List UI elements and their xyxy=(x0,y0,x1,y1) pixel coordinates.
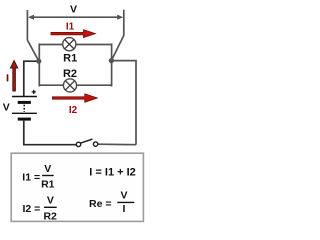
lamp R2 xyxy=(63,79,76,92)
wire: battery bottom lead xyxy=(24,121,77,145)
svg-text:V: V xyxy=(44,163,51,175)
node junction left xyxy=(36,59,41,64)
svg-text:I2: I2 xyxy=(69,105,78,116)
formula box xyxy=(11,153,143,221)
node junction right xyxy=(109,58,114,63)
svg-text:R2: R2 xyxy=(43,211,57,223)
wire: parallel box left vertical xyxy=(38,43,40,86)
label I (red) xyxy=(7,74,9,81)
formula I2 = V/R2 xyxy=(23,194,58,222)
wire: left probe diagonal xyxy=(27,40,38,61)
wire: right probe diagonal xyxy=(111,35,123,60)
wire: top branch xyxy=(39,44,111,46)
current arrow I2 xyxy=(53,94,98,102)
svg-text:I1: I1 xyxy=(66,21,75,32)
svg-text:V: V xyxy=(3,101,10,113)
formula Re = V/I xyxy=(89,190,134,215)
wire: parallel box right vertical xyxy=(111,43,113,86)
wire: battery top feed xyxy=(24,61,39,96)
svg-text:R1: R1 xyxy=(41,178,55,190)
svg-text:Re =: Re = xyxy=(89,198,111,210)
formula I1 = V/R1 xyxy=(22,163,54,190)
svg-text:I1 =: I1 = xyxy=(22,171,40,183)
svg-text:V: V xyxy=(120,190,127,202)
label + (battery polarity) xyxy=(32,90,36,94)
current arrow I (red, up) xyxy=(10,60,17,91)
switch S xyxy=(76,139,98,146)
svg-text:V: V xyxy=(47,194,54,206)
voltmeter span arrow V xyxy=(27,10,123,41)
svg-text:I2 =: I2 = xyxy=(23,203,41,215)
lamp R1 xyxy=(63,38,76,51)
svg-text:V: V xyxy=(70,3,77,15)
svg-text:I = I1 + I2: I = I1 + I2 xyxy=(89,167,135,179)
wire: bottom right segment xyxy=(98,143,136,146)
wire: bottom branch xyxy=(39,84,111,86)
svg-text:R1: R1 xyxy=(63,52,77,64)
battery V xyxy=(12,97,37,120)
current arrow I1 xyxy=(51,30,95,38)
svg-text:I: I xyxy=(123,203,126,215)
wire: right feed xyxy=(111,61,136,145)
svg-text:R2: R2 xyxy=(63,68,77,80)
